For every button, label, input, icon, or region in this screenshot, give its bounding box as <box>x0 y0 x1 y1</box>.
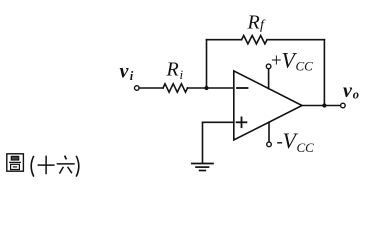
caption paren ( <box>31 156 34 177</box>
svg-text:R: R <box>166 59 179 81</box>
svg-text:CC: CC <box>296 59 314 74</box>
output terminal vo <box>341 103 346 108</box>
caption glyph 圖 <box>7 154 24 171</box>
+VCC pin <box>268 69 270 89</box>
svg-text:+: + <box>271 51 282 72</box>
op-amp plus sign <box>237 121 247 123</box>
resistor Ri <box>163 84 188 92</box>
op-amp U1 <box>234 71 302 140</box>
svg-text:i: i <box>180 67 184 82</box>
op-amp minus sign <box>237 87 248 89</box>
resistor Rf <box>242 36 268 44</box>
caption paren ) <box>76 156 79 177</box>
wire feedback down to output node <box>323 40 325 106</box>
svg-text:i: i <box>130 69 134 83</box>
wire top rail left <box>207 39 242 41</box>
caption 圖(十六) drawn as strokes <box>7 154 79 177</box>
node A inverting-input junction <box>204 86 208 90</box>
svg-text:o: o <box>353 88 359 102</box>
caption glyph 十 <box>38 156 55 175</box>
input terminal vi <box>135 86 140 91</box>
wire top rail right <box>267 39 324 41</box>
svg-text:R: R <box>247 11 260 33</box>
wire non-inverting input to ground drop <box>203 122 234 163</box>
caption glyph 六 <box>57 156 75 174</box>
svg-text:v: v <box>343 80 353 102</box>
wire op-amp output <box>302 105 341 107</box>
ground <box>192 164 213 171</box>
node B output junction <box>322 103 326 107</box>
wire input to Ri <box>139 87 163 89</box>
svg-text:CC: CC <box>297 140 315 155</box>
wire Ri to inverting input <box>188 87 234 89</box>
svg-text:f: f <box>260 18 266 33</box>
wire junction up to feedback rail <box>206 40 208 88</box>
svg-text:v: v <box>120 61 130 83</box>
-VCC pin <box>268 122 270 142</box>
